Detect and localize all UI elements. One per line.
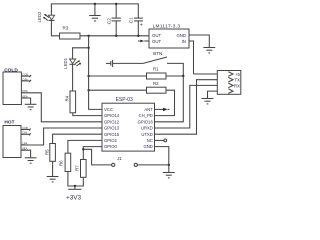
wire BTN node down to GPIO16 — [155, 76, 184, 122]
svg-text:J1: J1 — [117, 156, 122, 161]
pin OUT2 stub with arrow — [138, 40, 149, 43]
wire GPIO2 to R6 — [68, 140, 102, 153]
wire branch to LED1 — [73, 48, 89, 59]
ground ESP — [163, 173, 175, 178]
wire COLD pin4 to ground — [21, 98, 30, 104]
svg-text:VCC: VCC — [104, 107, 113, 112]
power +3V3 — [66, 186, 82, 202]
svg-text:RX: RX — [234, 84, 240, 89]
svg-text:C2: C2 — [106, 18, 112, 24]
LED2 — [37, 11, 55, 22]
op-amp U2 LM1117-3.3 — [149, 24, 189, 49]
svg-text:LED1: LED1 — [63, 57, 68, 68]
wire ESP GND to ground and J1 — [155, 147, 169, 173]
svg-text:OUT: OUT — [152, 39, 161, 44]
svg-text:R1: R1 — [153, 67, 159, 72]
wire +5 to connector — [194, 73, 229, 75]
svg-text:GPIO16: GPIO16 — [138, 119, 154, 124]
ground HOT — [25, 158, 37, 163]
svg-text:GPIO13: GPIO13 — [104, 126, 120, 131]
svg-text:GND: GND — [143, 144, 152, 149]
svg-text:LED2: LED2 — [37, 11, 42, 22]
wire COLD pin3 to GPIO12 — [21, 93, 102, 122]
wire GPIO0 to R7 — [83, 147, 102, 160]
wire R6 R7 to +3V3 — [68, 172, 83, 187]
svg-text:URXD: URXD — [141, 126, 153, 131]
svg-text:OUT: OUT — [152, 33, 161, 38]
svg-text:GPIO14: GPIO14 — [104, 113, 120, 118]
wire GPIO15 to R5 — [53, 134, 102, 143]
svg-text:ESP-03: ESP-03 — [116, 97, 133, 103]
wire HOT pin4 to ground — [21, 150, 31, 158]
svg-text:NC: NC — [147, 138, 153, 143]
svg-text:GPIO15: GPIO15 — [104, 132, 120, 137]
wire LM IN to +5 — [189, 41, 194, 74]
connector COLD — [3, 67, 31, 104]
resistor R1 — [147, 67, 167, 79]
resistor R2 — [147, 81, 167, 93]
connector P1 serial — [217, 71, 241, 95]
wire connector GND — [208, 91, 229, 98]
capacitor C2 — [106, 3, 120, 37]
wire 3V3 rail — [80, 35, 149, 37]
node LED1 branch — [87, 47, 89, 49]
wire top GND rail — [51, 4, 138, 18]
connector HOT — [3, 119, 31, 157]
svg-text:CH_PD: CH_PD — [139, 113, 153, 118]
svg-text:+: + — [140, 23, 143, 29]
svg-text:UTXD: UTXD — [141, 132, 152, 137]
pin NC circle — [155, 139, 167, 142]
wire HOT pin3 to GPIO13 — [21, 128, 102, 145]
ground R5 — [47, 177, 59, 182]
wire R1 right to BTN node — [166, 75, 183, 77]
svg-text:IN: IN — [182, 39, 186, 44]
resistor R3 — [60, 26, 81, 39]
wire R4 to GPIO14 — [73, 113, 102, 116]
ground COLD — [25, 104, 37, 109]
svg-text:GND: GND — [176, 33, 186, 38]
wire LM GND to ground — [189, 35, 209, 48]
jumper J1 — [83, 149, 169, 166]
svg-text:C1: C1 — [128, 17, 134, 23]
LED1 — [63, 57, 81, 68]
capacitor C1 polarized — [128, 17, 143, 37]
op-amp U1 ESP-03 — [102, 97, 155, 151]
wire URXD to RX — [155, 85, 229, 128]
capacitor C3 small — [106, 60, 143, 67]
resistor R4 — [65, 91, 76, 113]
resistor R7 — [74, 160, 86, 178]
button BTN — [143, 51, 183, 76]
svg-text:GPIO0: GPIO0 — [104, 144, 117, 149]
wire R1 left — [89, 75, 147, 77]
pin ANT arrow — [155, 108, 170, 112]
ground LM1117 — [203, 48, 215, 53]
svg-text:GPIO2: GPIO2 — [104, 138, 117, 143]
node 3V3 junction R3 — [87, 35, 89, 37]
wire UTXD to TX — [155, 80, 229, 135]
svg-text:TX: TX — [234, 78, 240, 83]
svg-text:R3: R3 — [63, 26, 69, 31]
ground connector — [202, 99, 214, 104]
wire R5 to ground — [52, 161, 54, 176]
wire 3V3 vertical to VCC — [89, 36, 102, 110]
wire R2 right to CH_PD — [155, 90, 175, 115]
resistor R5 — [44, 144, 55, 162]
svg-text:R6: R6 — [58, 160, 63, 166]
svg-text:HOT: HOT — [4, 119, 14, 125]
svg-text:R2: R2 — [153, 81, 159, 86]
wire R2 left — [89, 89, 147, 91]
svg-text:+5: +5 — [235, 72, 241, 77]
svg-text:GPIO12: GPIO12 — [104, 119, 120, 124]
svg-text:R7: R7 — [74, 165, 79, 171]
resistor R6 — [58, 153, 70, 171]
svg-text:R4: R4 — [65, 95, 70, 101]
svg-text:R5: R5 — [44, 149, 49, 155]
ground top — [89, 3, 100, 21]
svg-text:+3V3: +3V3 — [66, 195, 82, 202]
wire LED2 to R3 — [51, 20, 59, 35]
wire LED1 to R4 — [72, 64, 74, 91]
svg-text:BTN: BTN — [153, 51, 162, 56]
svg-text:ANT: ANT — [144, 107, 153, 112]
